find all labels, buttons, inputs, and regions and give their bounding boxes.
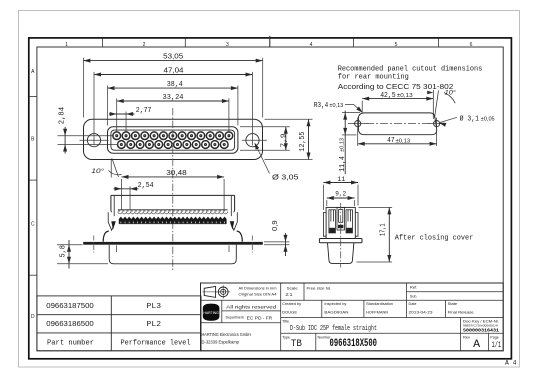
panel cutout slot outline <box>358 113 436 135</box>
svg-text:All rights reserved: All rights reserved <box>226 305 277 310</box>
svg-text:38,4: 38,4 <box>167 81 183 89</box>
svg-text:±0,05: ±0,05 <box>481 116 495 122</box>
leader R3,4 +-0,13 <box>314 102 363 113</box>
front view: shroud inner outline <box>111 130 235 150</box>
dimension 2,84 (row offset) <box>58 107 118 154</box>
side view: left latch hook (dark) <box>111 221 116 230</box>
svg-text:98837/CY5/v000/001/A: 98837/CY5/v000/001/A <box>463 324 498 328</box>
dimension 30,48 <box>122 168 225 209</box>
side view: cap end channels <box>111 196 235 216</box>
svg-text:1: 1 <box>65 42 68 48</box>
svg-text:Rev: Rev <box>463 335 470 339</box>
svg-text:±0,13: ±0,13 <box>397 93 413 99</box>
svg-text:PL2: PL2 <box>147 321 162 329</box>
panel cutout right hole <box>434 121 440 127</box>
svg-text:D-Sub IDC 25P female straight: D-Sub IDC 25P female straight <box>290 325 377 333</box>
svg-text:Ø 3,05: Ø 3,05 <box>272 172 299 181</box>
svg-text:9,2: 9,2 <box>335 191 346 198</box>
svg-text:47,04: 47,04 <box>164 66 184 75</box>
leader Ø 3,1 +-0,05 <box>439 114 495 126</box>
svg-text:PL3: PL3 <box>147 303 162 311</box>
svg-text:42,5: 42,5 <box>380 92 396 100</box>
front view vertical centerline <box>172 108 174 270</box>
svg-text:Page: Page <box>490 335 499 339</box>
svg-text:R3,4: R3,4 <box>314 102 328 110</box>
svg-text:Ref.: Ref. <box>410 285 418 289</box>
front view: hole crosshairs <box>80 127 267 146</box>
svg-text:D: D <box>31 314 35 320</box>
end view: side latch walls <box>323 213 358 237</box>
svg-text:BAGDIKIAN: BAGDIKIAN <box>324 310 348 315</box>
dimension 2,54 <box>114 182 154 209</box>
dimension 17,1 <box>357 207 393 262</box>
svg-text:Sub.: Sub. <box>410 295 418 299</box>
dimension 7,9 (shroud height) <box>240 127 290 150</box>
panel cutout left hole <box>355 121 361 127</box>
dimension 38,4 <box>108 81 238 125</box>
svg-text:S00000316431: S00000316431 <box>463 329 500 333</box>
projection symbol (truncated cone) <box>204 286 215 297</box>
svg-text:DOUGE: DOUGE <box>282 310 297 315</box>
dimension 47 +-0,13 <box>358 137 437 146</box>
svg-text:2,54: 2,54 <box>138 182 154 190</box>
svg-text:Inspected by: Inspected by <box>324 302 346 306</box>
svg-text:47: 47 <box>387 137 395 145</box>
front view: left mounting hole <box>87 134 100 147</box>
side view: right latch hook outline <box>231 212 237 230</box>
svg-text:Date: Date <box>409 302 417 306</box>
svg-text:09663187500: 09663187500 <box>46 301 94 310</box>
HARTING logo <box>203 304 220 321</box>
svg-text:TB: TB <box>291 338 302 350</box>
outer drawing frame (thick) <box>29 38 512 359</box>
svg-text:11,4: 11,4 <box>339 156 347 172</box>
svg-text:Free size tol.: Free size tol. <box>307 286 332 290</box>
angle dimension 10 deg (cutout taper) <box>433 90 455 119</box>
side view: right latch hook (dark) <box>230 221 235 230</box>
end view: lower shell trapezoid <box>328 243 354 264</box>
dimension 12,55 (flange height) <box>265 119 313 159</box>
part number table <box>37 296 201 351</box>
svg-text:Scale: Scale <box>287 286 298 290</box>
svg-text:2:1: 2:1 <box>285 292 293 297</box>
svg-text:A: A <box>473 339 480 351</box>
front view contact pins top row (13) <box>113 132 233 140</box>
svg-text:Created by: Created by <box>282 302 301 306</box>
svg-text:2,77: 2,77 <box>136 107 152 115</box>
svg-text:33,24: 33,24 <box>163 94 184 102</box>
svg-text:4: 4 <box>310 42 313 48</box>
end view: contacts in slots (dark) <box>329 225 352 233</box>
projection symbol (circle view) <box>202 285 230 298</box>
title block outline <box>201 283 504 351</box>
svg-text:11: 11 <box>337 176 345 183</box>
svg-text:5: 5 <box>395 42 398 48</box>
svg-text:for rear mounting: for rear mounting <box>338 73 409 81</box>
svg-text:Recommended panel cutout dimen: Recommended panel cutout dimensions <box>338 65 483 73</box>
svg-text:0966318X500: 0966318X500 <box>330 338 378 350</box>
svg-text:0,9: 0,9 <box>270 220 279 231</box>
title block internal lines <box>201 283 504 351</box>
svg-text:Performance level: Performance level <box>121 339 192 347</box>
svg-text:Part number: Part number <box>47 339 94 347</box>
front view: shroud outer outline <box>108 127 238 153</box>
dimension 9,2 <box>327 191 355 206</box>
panel cutout hole crosshair verticals <box>348 118 446 146</box>
end view: inner slots and tongue <box>329 207 353 233</box>
front view: right mounting hole <box>246 134 259 147</box>
svg-text:09663186500: 09663186500 <box>46 319 94 328</box>
svg-text:12,55: 12,55 <box>299 132 307 152</box>
svg-text:HARTING Electronics GmbH: HARTING Electronics GmbH <box>202 332 252 337</box>
svg-text:30,48: 30,48 <box>166 168 187 177</box>
svg-text:3: 3 <box>226 42 229 48</box>
svg-text:6: 6 <box>470 42 473 48</box>
end view: vertical centerline <box>340 203 342 268</box>
side view contact scalloped top edge <box>118 209 228 211</box>
svg-text:5,8: 5,8 <box>60 245 68 257</box>
dimension 2,77 <box>109 107 151 131</box>
svg-text:C: C <box>31 222 35 228</box>
side view: flange hole centerlines <box>94 236 253 253</box>
svg-text:After closing cover: After closing cover <box>395 235 474 243</box>
svg-text:A 4: A 4 <box>505 360 517 368</box>
svg-text:1/1: 1/1 <box>492 341 502 350</box>
svg-text:Department: Department <box>226 315 244 319</box>
front view contact pins bottom row (12) <box>118 141 229 149</box>
dimension 0,9 (flange thickness) <box>264 220 290 256</box>
side view: cap top outline <box>111 195 235 211</box>
svg-text:17,1: 17,1 <box>380 223 388 236</box>
dimension 33,24 <box>117 94 229 132</box>
svg-text:7,9: 7,9 <box>280 134 288 148</box>
svg-text:Original Size DIN A4: Original Size DIN A4 <box>239 293 277 297</box>
svg-text:2,84: 2,84 <box>58 107 66 124</box>
svg-text:10°: 10° <box>91 167 104 175</box>
svg-text:±0,13: ±0,13 <box>329 103 343 109</box>
svg-text:Final Release: Final Release <box>448 310 475 315</box>
svg-text:2013-04-23: 2013-04-23 <box>409 310 434 315</box>
svg-text:EC PD - FR: EC PD - FR <box>247 316 273 321</box>
dimension 53,05 <box>83 52 262 118</box>
angle dimension 10 deg (shroud draft, front view) <box>109 159 122 178</box>
svg-text:2: 2 <box>143 42 146 48</box>
svg-text:±0,13: ±0,13 <box>339 138 345 152</box>
dimension 47,04 <box>94 66 253 127</box>
left ruler row ticks <box>29 97 37 276</box>
svg-text:According to CECC 75 301-802: According to CECC 75 301-802 <box>338 84 454 91</box>
svg-text:State: State <box>448 302 458 306</box>
svg-text:D-32339 Espelkamp: D-32339 Espelkamp <box>202 340 240 345</box>
end view: cap body outline <box>326 207 355 238</box>
svg-text:HOFFMANN: HOFFMANN <box>366 310 388 315</box>
svg-text:Type: Type <box>282 335 290 339</box>
svg-text:All Dimensions in mm: All Dimensions in mm <box>239 287 277 291</box>
inner drawing frame (thin) <box>37 47 503 351</box>
dimension 5,8 <box>57 240 108 269</box>
side view: left latch hook outline <box>108 212 114 230</box>
end view: flange plate <box>319 239 362 243</box>
side view: right bracket bend <box>237 231 243 242</box>
panel cutout horizontal centerline <box>366 123 431 125</box>
svg-text:Ø 3,1: Ø 3,1 <box>460 114 480 123</box>
svg-text:Standardisation: Standardisation <box>366 302 393 306</box>
side view: left bracket bend <box>103 231 109 242</box>
svg-text:53,05: 53,05 <box>163 52 183 61</box>
svg-text:Title: Title <box>282 319 289 323</box>
svg-text:±0,13: ±0,13 <box>396 138 411 144</box>
dimension 11 (end view width) <box>323 176 358 210</box>
front view: D-sub connector flange outline <box>84 119 263 159</box>
side view: mounting flange bar (thick) <box>83 242 263 245</box>
top ruler column ticks <box>103 36 439 47</box>
svg-text:10°: 10° <box>445 88 456 96</box>
leader and label Ø 3,05 (mounting hole dia) <box>255 143 299 182</box>
side view IDC contact teeth band <box>119 217 227 224</box>
dimension 42,5 +-0,13 <box>362 92 433 112</box>
side view: lower shell <box>109 245 236 264</box>
svg-text:HARTING: HARTING <box>203 311 219 315</box>
dimension 11,4 +-0,13 <box>339 111 360 175</box>
